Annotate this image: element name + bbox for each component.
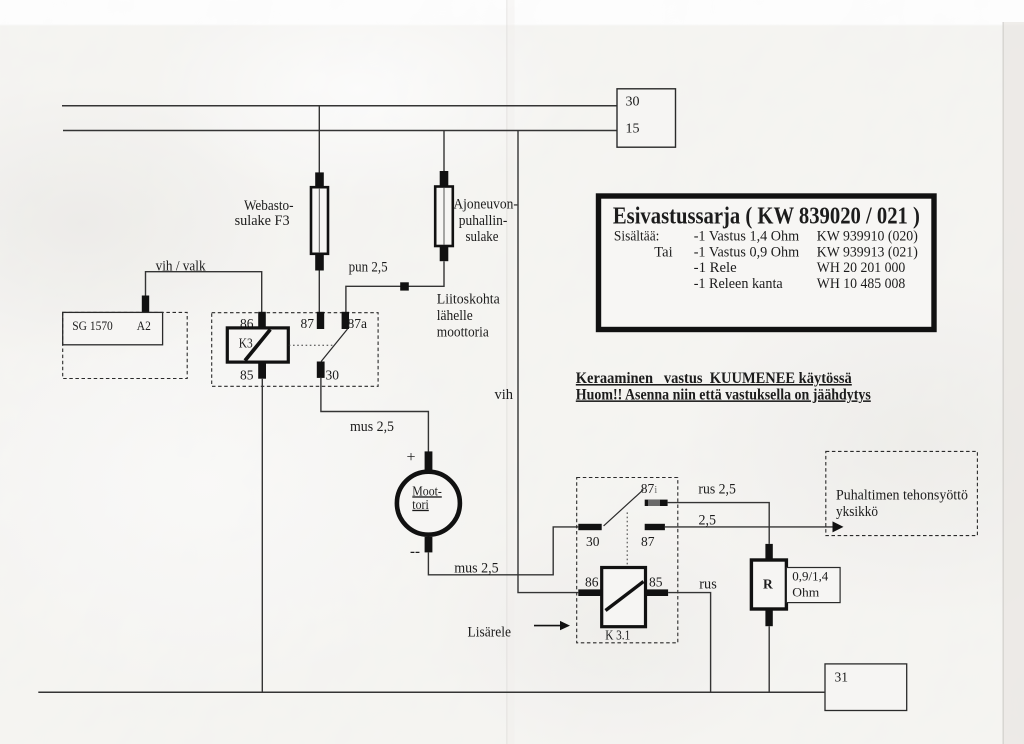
fuse (Ajoneuvon puhallin sulake) [435, 171, 453, 261]
label Puhaltimen tehonsyöttö yksikkö [836, 488, 968, 521]
wire rus from coil 85 down to ground bus [668, 593, 711, 693]
svg-text:Liitoskohta: Liitoskohta [437, 292, 501, 308]
relay K3.1 pin 87a bar [645, 500, 668, 506]
svg-text:rus: rus [699, 577, 717, 593]
wire mus 2,5 from motor minus to relay K3.1 pin 30 [428, 527, 578, 575]
label 86 [240, 316, 254, 331]
wire vih (long vertical from bus 15 to relay K3.1 coil 86) [518, 131, 578, 593]
motor minus pin [425, 537, 433, 552]
svg-text:86: 86 [585, 575, 599, 590]
svg-text:vih / valk: vih / valk [156, 258, 207, 274]
relay K3 switch contact diagonal [321, 329, 347, 362]
wire 2,5 from 87 to blower power unit [665, 526, 834, 528]
wire from fuse F3 down to relay K3 pin 87 [318, 271, 320, 313]
svg-text:31: 31 [835, 670, 849, 685]
label Webasto-sulake F3 [235, 198, 294, 229]
svg-text:Ajoneuvon-: Ajoneuvon- [453, 197, 518, 213]
motor M circle [397, 472, 460, 535]
terminal box 30 / 15 [617, 89, 676, 147]
resistor R bottom pin [765, 609, 772, 626]
svg-text:-1 Vastus 0,9 Ohm: -1 Vastus 0,9 Ohm [694, 244, 800, 260]
label pun 2,5 [349, 260, 388, 276]
relay K3 pin 87a [342, 312, 349, 329]
relay K3 actuator dotted link [289, 344, 335, 346]
svg-text:87: 87 [301, 316, 315, 331]
svg-text:puhallin-: puhallin- [459, 213, 508, 229]
relay K3.1 pin 87 bar [645, 524, 665, 530]
control unit dashed outline [63, 312, 188, 378]
relay K3.1 dashed box [577, 478, 678, 643]
label Liitoskohta lähelle moottoria [437, 292, 501, 341]
wire ground bus (bottom horizontal line) [38, 691, 825, 693]
svg-text:K 3.1: K 3.1 [605, 628, 630, 643]
svg-text:Keraaminen vastus KUUMENEE: Keraaminen vastus KUUMENEE käytössä [576, 370, 852, 387]
svg-text:30: 30 [586, 534, 600, 549]
relay K3 pin 86 [258, 312, 266, 328]
relay K3 pin 87 [317, 312, 324, 329]
label mus 2,5 (lower) [454, 561, 499, 577]
label minus [410, 544, 420, 560]
svg-text:SG 1570: SG 1570 [72, 318, 113, 333]
control unit SG 1570 box [63, 312, 163, 344]
control unit SG 1570 pin [142, 296, 149, 313]
svg-text:Esivastussarja ( KW 839020 / 0: Esivastussarja ( KW 839020 / 021 ) [613, 204, 920, 230]
svg-text:0,9/1,4: 0,9/1,4 [792, 569, 828, 584]
relay K3.1 coil pin 86 bar [578, 589, 601, 596]
label rus [699, 577, 717, 593]
wire bus 15 (second horizontal line) [63, 130, 617, 132]
svg-text:vih: vih [495, 387, 514, 403]
svg-text:-1 Vastus 1,4 Ohm: -1 Vastus 1,4 Ohm [694, 229, 800, 245]
relay K3.1 coil pin 85 bar [646, 589, 669, 596]
svg-text:pun 2,5: pun 2,5 [349, 260, 388, 276]
label 30 [586, 534, 600, 549]
svg-text:yksikkö: yksikkö [836, 504, 878, 520]
svg-text:87i: 87i [641, 481, 658, 496]
wire pun 2,5 (fuse down, left, down to 87a) [346, 261, 444, 313]
svg-text:87a: 87a [348, 316, 368, 331]
relay K3.1 coil box [602, 568, 646, 627]
wire from K3 pin 30 down to motor plus [321, 378, 429, 452]
label 87a [348, 316, 368, 331]
relay K3.1 actuator dotted link [626, 512, 628, 567]
svg-text:15: 15 [626, 122, 640, 137]
svg-text:moottoria: moottoria [437, 325, 490, 341]
wire vih/valk from SG1570 to relay K3 coil 86 [146, 272, 262, 313]
svg-text:-1 Releen kanta: -1 Releen kanta [694, 276, 784, 292]
label vih [495, 387, 514, 403]
svg-text:sulake: sulake [466, 229, 499, 245]
resistor R body [751, 560, 786, 609]
label mus 2,5 (upper) [350, 419, 394, 435]
terminal box 31 [825, 664, 907, 711]
svg-text:KW 939913 (021): KW 939913 (021) [817, 244, 918, 260]
label 85 [240, 368, 254, 383]
svg-text:87: 87 [641, 534, 655, 549]
wire bus 30 (top horizontal line) [62, 105, 617, 107]
svg-text:mus 2,5: mus 2,5 [350, 419, 394, 435]
label vih / valk [156, 258, 207, 274]
value box 0,9/1,4 Ohm [786, 568, 840, 603]
label + [407, 449, 416, 466]
svg-text:Huom!! Asenna niin että vastuk: Huom!! Asenna niin että vastuksella on j… [576, 386, 871, 403]
svg-text:K3: K3 [239, 337, 253, 352]
relay K3.1 pin 30 bar [578, 524, 601, 530]
svg-text:tori: tori [412, 497, 429, 512]
svg-text:KW 939910 (020): KW 939910 (020) [817, 229, 918, 245]
label 2,5 [699, 513, 717, 529]
paper center fold [506, 0, 515, 744]
paper right edge fold [1003, 22, 1024, 744]
svg-text:lähelle: lähelle [437, 308, 473, 324]
relay K3 pin 85 [258, 362, 266, 379]
label Ajoneuvon-puhallin-sulake [453, 197, 518, 245]
label 85 [649, 575, 663, 590]
svg-text:Puhaltimen tehonsyöttö: Puhaltimen tehonsyöttö [836, 488, 968, 504]
svg-text:85: 85 [649, 575, 663, 590]
warning text Keraaminen vastus KUUMENEE [576, 370, 871, 403]
svg-text:Sisältää:: Sisältää: [614, 229, 660, 245]
svg-text:-1 Rele: -1 Rele [694, 260, 737, 276]
relay K3 coil box [227, 328, 288, 362]
label rus 2,5 [698, 482, 736, 498]
svg-text:Ohm: Ohm [792, 585, 819, 600]
svg-text:85: 85 [240, 368, 254, 383]
svg-text:WH 10 485 008: WH 10 485 008 [817, 276, 906, 292]
motor plus pin [425, 451, 433, 469]
svg-text:Webasto-: Webasto- [244, 198, 294, 214]
arrow Lisärele [534, 621, 570, 630]
svg-text:--: -- [410, 544, 420, 560]
wire from bus 30 down to fuse F3 [318, 106, 320, 174]
label 87 [301, 316, 315, 331]
fuse F3 (Webasto-sulake) [311, 172, 328, 270]
label Lisärele [468, 625, 512, 641]
svg-text:2,5: 2,5 [699, 513, 717, 529]
blower power unit dashed box [826, 451, 978, 535]
svg-text:30: 30 [626, 95, 640, 110]
relay K3 dashed box [212, 313, 378, 387]
label 87a (smudged) [641, 481, 658, 496]
svg-text:sulake F3: sulake F3 [235, 213, 290, 229]
svg-text:rus 2,5: rus 2,5 [698, 482, 736, 498]
svg-text:mus 2,5: mus 2,5 [454, 561, 499, 577]
svg-text:WH 20 201 000: WH 20 201 000 [817, 260, 906, 276]
relay K3 pin 30 [317, 362, 325, 378]
svg-text:+: + [407, 449, 416, 466]
wire from bus 15 down to vehicle blower fuse [443, 131, 445, 172]
title box Esivastussarja [599, 196, 935, 330]
junction connector square on pun wire [400, 282, 409, 290]
arrow head into blower unit [833, 521, 844, 532]
wire rus 2,5 from 87a to resistor R [668, 503, 770, 544]
label 87 [641, 534, 655, 549]
wire from R bottom to ground bus [768, 626, 770, 692]
label K 3.1 [605, 628, 630, 643]
svg-text:Lisärele: Lisärele [468, 625, 512, 641]
svg-text:Tai: Tai [654, 244, 672, 260]
svg-text:A2: A2 [137, 318, 151, 333]
svg-text:R: R [763, 577, 773, 592]
svg-text:30: 30 [326, 368, 340, 383]
wire from K3 pin 85 down to ground bus [261, 379, 263, 693]
label 86 [585, 575, 599, 590]
resistor R top pin [765, 544, 772, 561]
relay K3.1 switch contact diagonal [604, 490, 644, 526]
label 30 [326, 368, 340, 383]
